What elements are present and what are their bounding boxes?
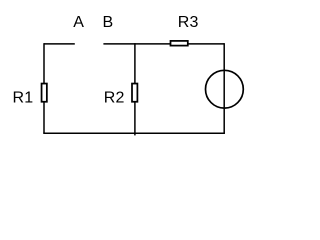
svg-text:R1: R1 <box>13 90 34 107</box>
current source <box>206 70 244 108</box>
wire bottom <box>43 132 225 134</box>
wire middle vertical <box>134 43 136 135</box>
resistor R1 <box>42 84 47 102</box>
svg-text:R3: R3 <box>178 14 199 31</box>
resistor R2 <box>132 84 137 102</box>
svg-text:B: B <box>103 14 114 31</box>
wire top-left segment to terminal A <box>44 43 75 45</box>
wire top-right segment from terminal B <box>103 43 224 45</box>
svg-text:R2: R2 <box>104 90 125 107</box>
svg-text:A: A <box>73 14 84 31</box>
resistor R3 <box>171 41 188 46</box>
wire right vertical <box>223 43 225 133</box>
wire left vertical <box>43 43 45 133</box>
